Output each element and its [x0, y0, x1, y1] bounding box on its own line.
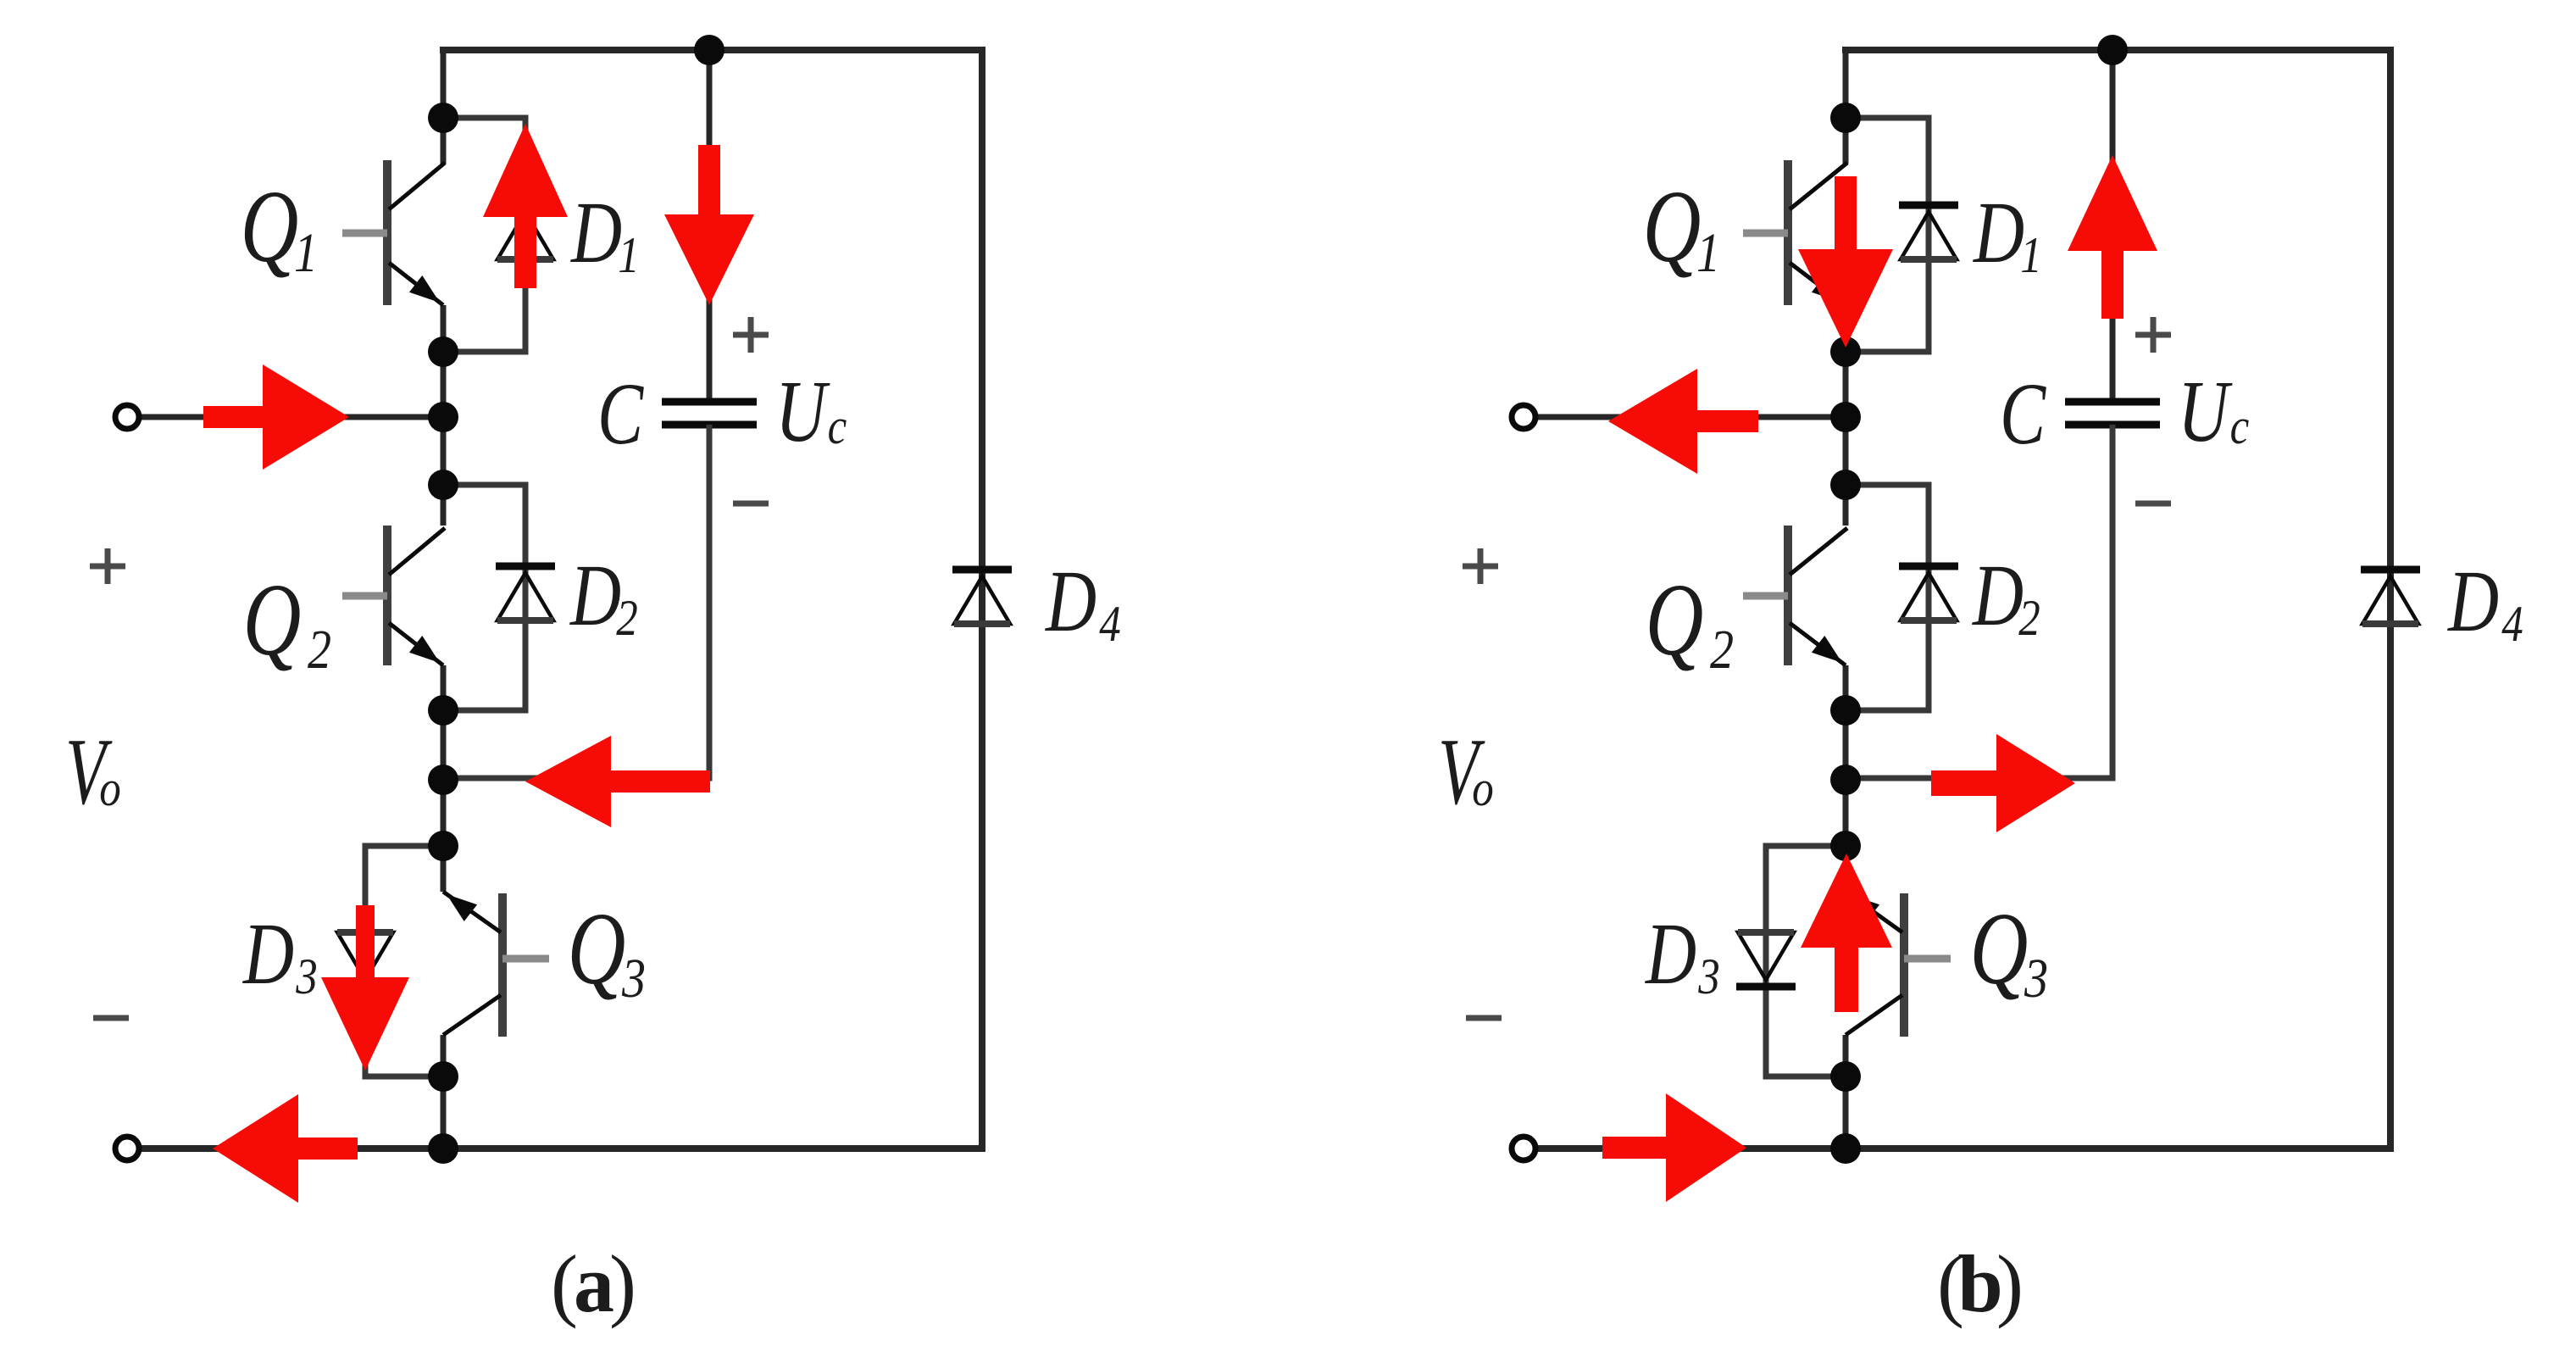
svg-text:o: o	[99, 760, 121, 817]
svg-text:D: D	[241, 905, 294, 1003]
svg-text:D: D	[1644, 905, 1696, 1003]
svg-text:2: 2	[616, 590, 638, 647]
svg-text:2: 2	[1710, 619, 1734, 681]
svg-text:D: D	[1972, 184, 2024, 281]
svg-text:Q: Q	[1970, 892, 2029, 1006]
svg-text:1: 1	[2020, 227, 2042, 284]
svg-text:3: 3	[295, 948, 317, 1005]
svg-text:U: U	[2178, 363, 2233, 460]
svg-text:a: a	[574, 1238, 614, 1329]
svg-text:c: c	[828, 398, 847, 455]
svg-text:): )	[1996, 1238, 2024, 1329]
svg-text:2: 2	[2018, 590, 2040, 647]
svg-text:D: D	[1971, 547, 2024, 644]
svg-text:3: 3	[2024, 948, 2048, 1009]
svg-text:1: 1	[294, 222, 318, 284]
svg-text:C: C	[597, 366, 645, 464]
svg-text:4: 4	[1099, 596, 1121, 653]
svg-text:3: 3	[1697, 948, 1719, 1005]
svg-text:D: D	[1044, 553, 1096, 650]
svg-text:D: D	[2446, 553, 2499, 650]
svg-text:3: 3	[621, 948, 646, 1009]
svg-text:U: U	[775, 363, 830, 460]
svg-text:Q: Q	[568, 892, 626, 1006]
svg-text:c: c	[2230, 398, 2250, 455]
svg-text:1: 1	[1696, 222, 1720, 284]
svg-text:4: 4	[2501, 596, 2523, 653]
svg-text:): )	[609, 1238, 636, 1329]
svg-text:C: C	[2000, 366, 2047, 464]
svg-text:Q: Q	[241, 170, 299, 284]
svg-text:Q: Q	[1646, 563, 1704, 677]
svg-text:D: D	[569, 184, 622, 281]
svg-text:2: 2	[308, 619, 331, 681]
svg-text:o: o	[1472, 760, 1494, 817]
svg-text:1: 1	[618, 227, 640, 284]
svg-text:Q: Q	[243, 563, 302, 677]
svg-text:Q: Q	[1643, 170, 1702, 284]
svg-text:D: D	[569, 547, 621, 644]
